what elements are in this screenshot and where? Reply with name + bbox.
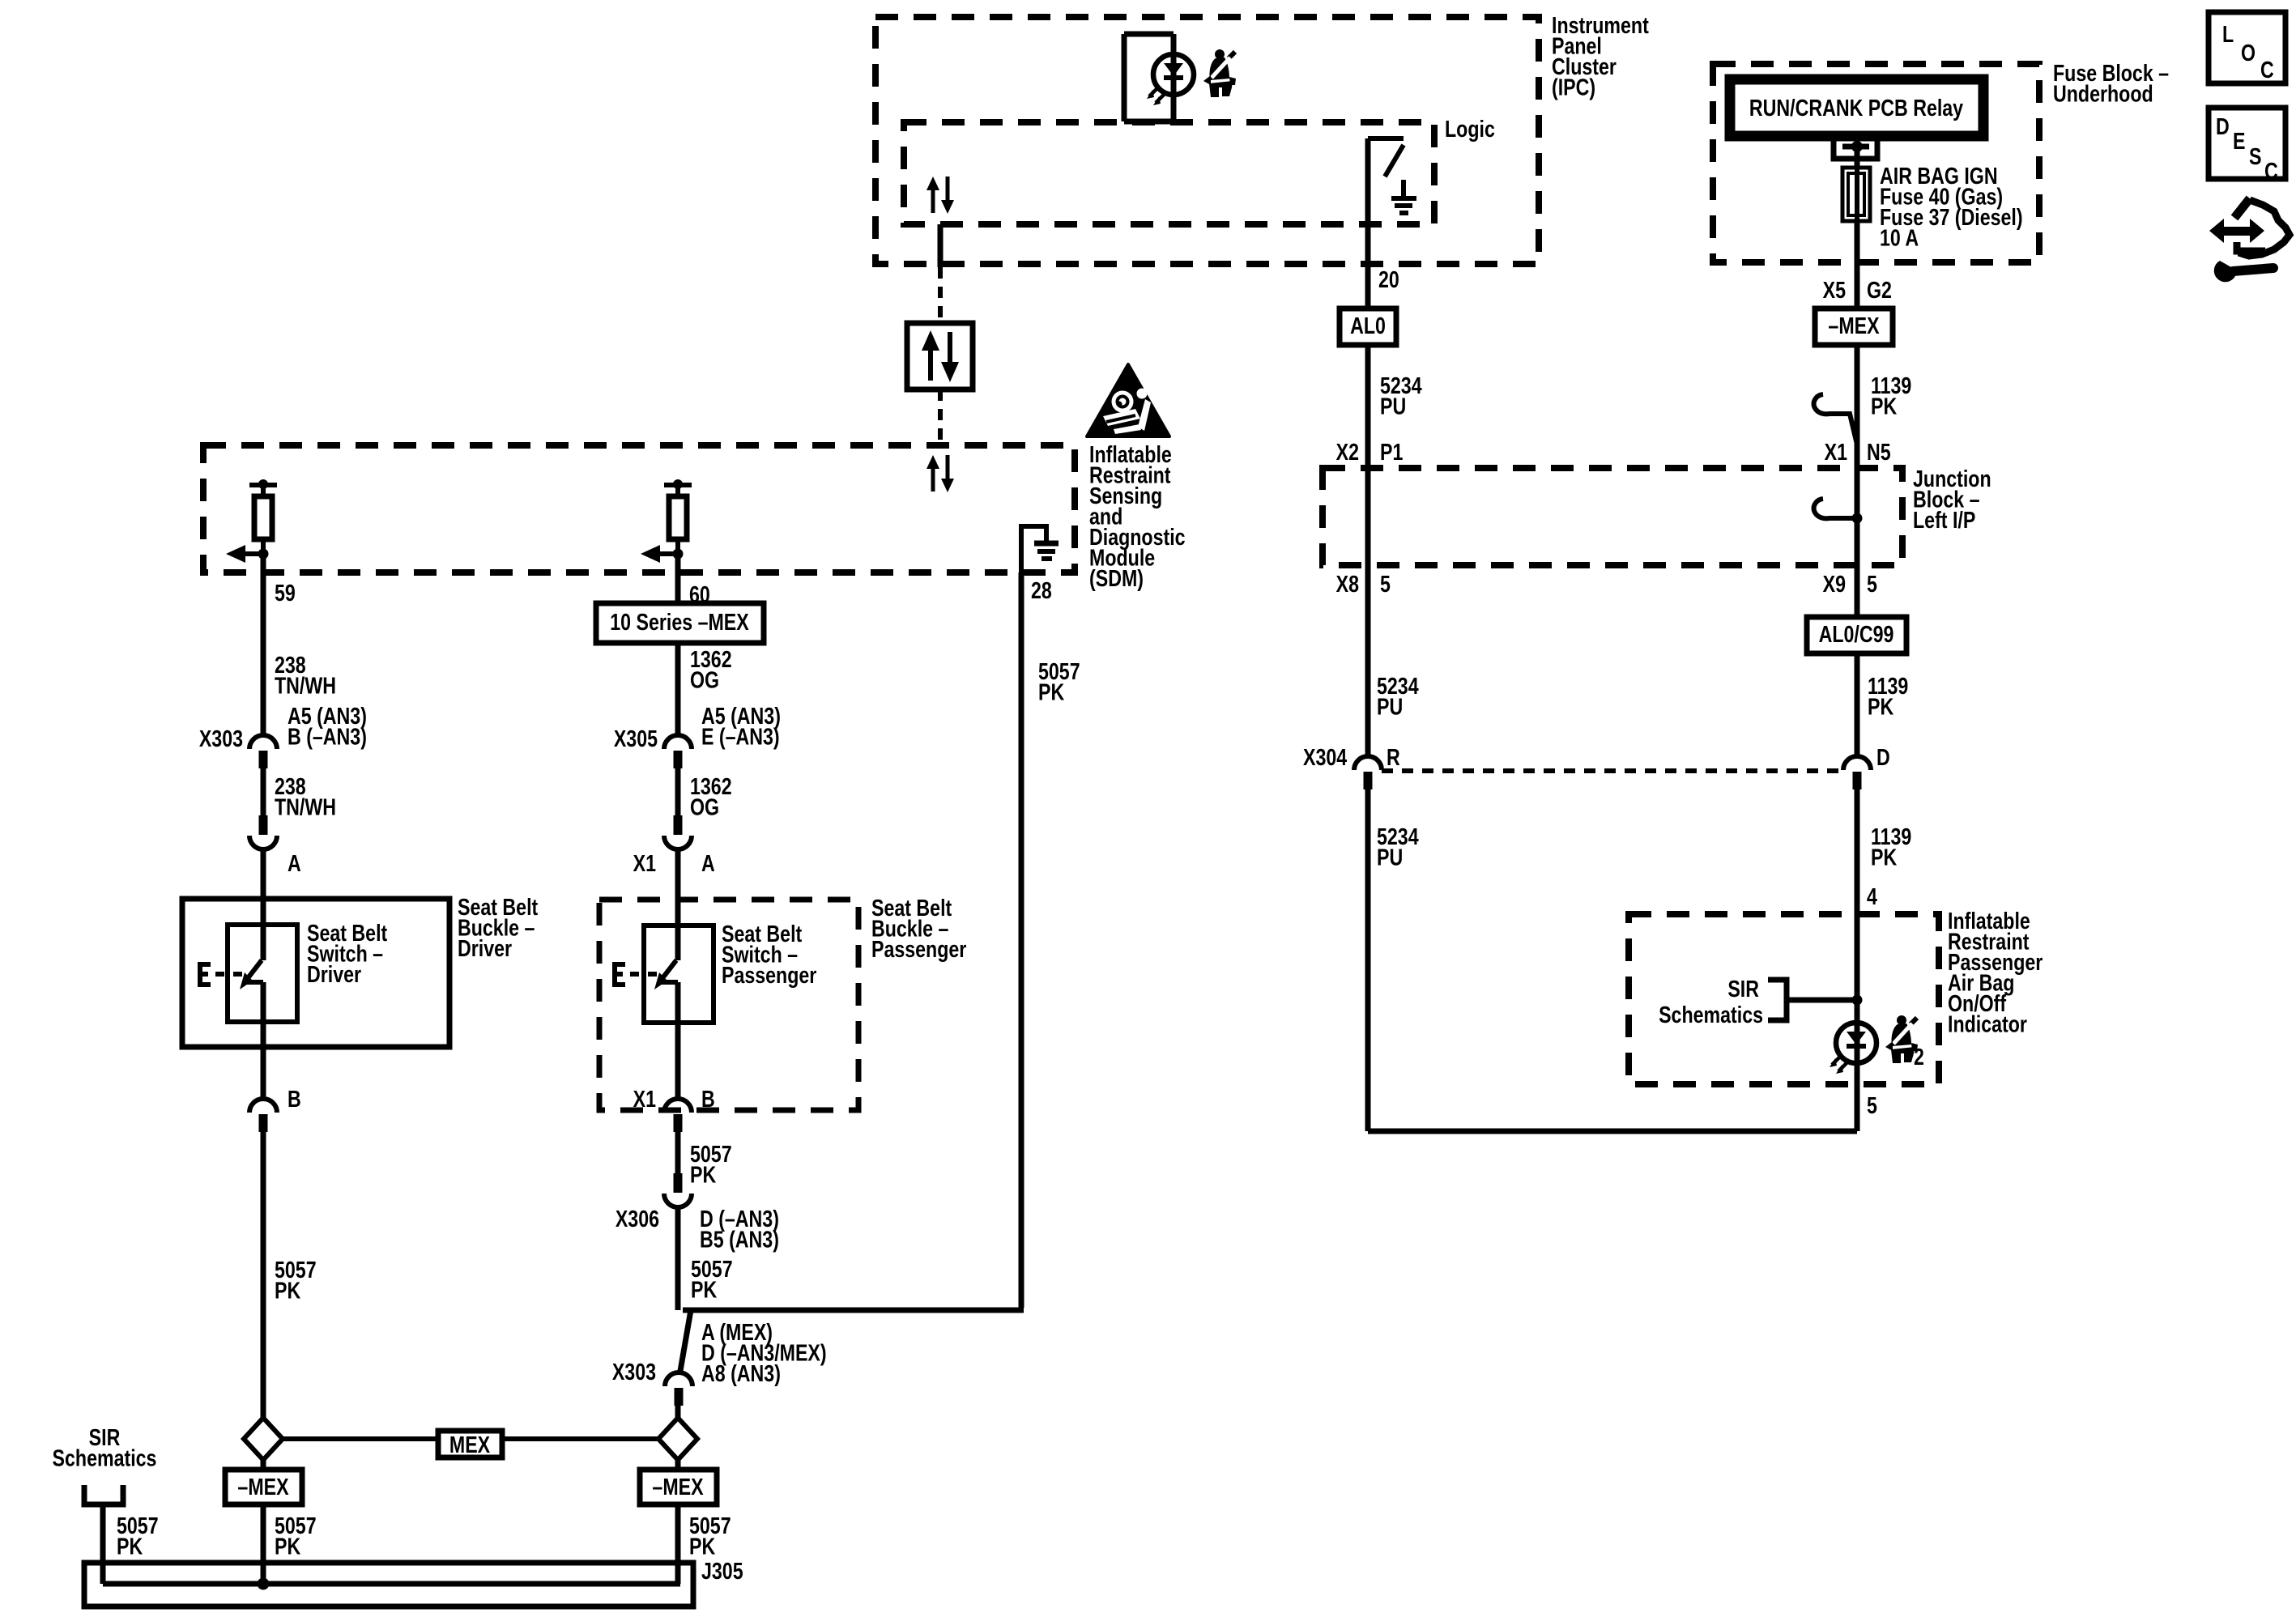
svg-text:X9: X9 <box>1823 570 1846 597</box>
net box -MEX (passenger) <box>640 1470 717 1504</box>
label: SIR Schematics (bottom left) <box>53 1423 157 1471</box>
wire: SDM pin 28 ground branch vertical <box>1019 572 1024 1308</box>
wire: -MEX to J305 bus (passenger) <box>675 1504 681 1584</box>
indicator module dashed outline <box>1629 914 1939 1084</box>
svg-text:PK: PK <box>691 1276 717 1303</box>
wire: ground branch horizontal to passenger column <box>683 1308 1024 1313</box>
desc reference box <box>2209 108 2285 179</box>
label: AIR BAG IGN Fuse 40 (Gas) Fuse 37 (Diesel) 10 A <box>1880 162 2023 251</box>
logic block dashed outline inside IPC <box>904 122 1434 224</box>
splice bus J305 inner line <box>103 1581 680 1587</box>
wire: SDM pin 60 passenger column upper <box>675 554 681 603</box>
switch S2 inner box (passenger) <box>644 926 714 1023</box>
SDM internal ground hook <box>1021 526 1046 572</box>
wire: between X303 halves (driver) <box>261 767 266 817</box>
serial data arrows inside SDM <box>926 455 954 492</box>
wire: passenger diamond to -MEX <box>675 1460 681 1470</box>
svg-text:D: D <box>2216 113 2230 139</box>
svg-text:AL0: AL0 <box>1350 312 1386 338</box>
svg-text:OG: OG <box>690 666 719 693</box>
svg-text:5: 5 <box>1380 570 1391 597</box>
net box MEX <box>438 1431 502 1457</box>
label: circuit 1362 OG (upper) <box>690 645 732 693</box>
label: Seat Belt Buckle - Passenger <box>871 894 966 962</box>
connector X304 half <box>1354 756 1382 789</box>
wire: AL0/C99 down to connector D <box>1855 653 1860 756</box>
svg-text:PU: PU <box>1380 393 1406 419</box>
E terminal glyph (passenger) <box>612 962 657 987</box>
svg-text:D: D <box>1876 743 1890 770</box>
label: circuit 1139 PK (lower) <box>1871 823 1911 870</box>
svg-text:Logic: Logic <box>1445 115 1495 142</box>
svg-text:20: 20 <box>1378 266 1399 292</box>
junction block left I/P dashed outline <box>1323 468 1902 565</box>
up arrow in gateway box <box>928 350 933 381</box>
label: circuit 1139 PK (mid) <box>1868 672 1908 720</box>
label: D E S C diagonal <box>2216 113 2278 184</box>
switch blade with arrow (passenger) <box>654 960 678 989</box>
seat belt wearer icon in IPC <box>1203 49 1236 97</box>
junction block tap hook upper <box>1814 394 1857 445</box>
svg-text:PK: PK <box>1871 393 1897 419</box>
svg-text:PU: PU <box>1377 844 1403 870</box>
svg-text:X2: X2 <box>1336 438 1359 465</box>
wire: driver switch to B pin <box>261 982 266 1099</box>
svg-text:E (–AN3): E (–AN3) <box>701 723 780 750</box>
LED lamp symbol in indicator <box>1830 1023 1876 1074</box>
svg-text:P1: P1 <box>1380 438 1403 465</box>
connector X1 A half (cup) <box>664 815 692 849</box>
svg-text:X8: X8 <box>1336 570 1359 597</box>
connector X1 B half <box>664 1099 692 1132</box>
wire: -MEX down to junction block <box>1855 345 1860 468</box>
svg-text:–MEX: –MEX <box>1828 312 1880 338</box>
net box AL0/C99 <box>1807 617 1906 653</box>
svg-text:SIR: SIR <box>1727 975 1759 1002</box>
wire: between X305 halves <box>675 767 681 817</box>
wire: IPC logic output pin 20 vertical <box>1365 138 1371 309</box>
SIR schematics bracket (indicator) <box>1768 980 1857 1020</box>
label: circuit 5057 PK (passenger upper) <box>690 1140 732 1188</box>
connector at B (driver) <box>249 1099 277 1132</box>
label: Fuse Block - Underhood <box>2053 59 2169 107</box>
SIR schematics bracket (bottom left) <box>84 1485 123 1504</box>
net box -MEX (right) <box>1815 309 1893 345</box>
svg-text:R: R <box>1387 743 1400 770</box>
wire: MEX box to passenger diamond <box>502 1436 658 1441</box>
fuse block underhood dashed outline <box>1713 64 2039 262</box>
switch blade with arrow (driver) <box>240 960 263 989</box>
svg-text:PU: PU <box>1377 693 1403 720</box>
wire: into passenger buckle switch <box>675 849 681 960</box>
svg-text:Left I/P: Left I/P <box>1913 506 1975 533</box>
wire: through junction block (right) <box>1855 468 1860 617</box>
wire: into driver buckle switch <box>261 849 266 960</box>
label: circuit 1362 OG (lower) <box>690 772 732 820</box>
svg-text:TN/WH: TN/WH <box>275 794 336 820</box>
label: Seat Belt Switch - Passenger <box>722 920 816 988</box>
wire: diamond to MEX box <box>283 1436 438 1441</box>
wire: diagonal drop to X303 lower <box>680 1310 691 1371</box>
svg-text:O: O <box>2241 39 2256 66</box>
wrench icon <box>2214 261 2273 282</box>
svg-text:TN/WH: TN/WH <box>275 672 336 699</box>
splice diamond (driver) <box>244 1418 283 1460</box>
svg-text:PK: PK <box>1868 693 1893 720</box>
wire: SIR bracket to bus inner line <box>100 1504 106 1584</box>
wire: X306 down to junction with SDM ground branch <box>675 1207 681 1310</box>
svg-text:Schematics: Schematics <box>53 1445 157 1471</box>
svg-text:X306: X306 <box>616 1205 659 1232</box>
svg-text:N5: N5 <box>1867 438 1891 465</box>
component box: Seat Belt Buckle - Passenger dashed outline <box>599 900 858 1110</box>
loc reference box <box>2209 12 2285 83</box>
wire: dashed serial data link IPC to gateway <box>938 267 943 323</box>
svg-text:X304: X304 <box>1303 743 1348 770</box>
down arrow in gateway box <box>948 332 952 363</box>
svg-text:PK: PK <box>690 1161 716 1188</box>
label: circuit 5057 PK (driver) <box>275 1256 317 1304</box>
label: circuit 238 TN/WH (upper) <box>275 651 336 699</box>
label: L O C diagonal <box>2222 20 2274 83</box>
svg-text:B (–AN3): B (–AN3) <box>288 723 367 750</box>
module box: SDM dashed outline <box>203 445 1075 572</box>
label: circuit 5234 PU (lower) <box>1377 823 1419 870</box>
svg-text:PK: PK <box>117 1533 143 1560</box>
svg-text:S: S <box>2249 143 2261 169</box>
connector X303 lower half (cup) <box>249 815 277 849</box>
wire: SDM pin 59 driver column upper <box>261 554 266 736</box>
svg-text:Underhood: Underhood <box>2053 80 2153 107</box>
svg-text:L: L <box>2222 20 2234 47</box>
svg-text:Indicator: Indicator <box>1948 1011 2027 1037</box>
svg-text:A: A <box>288 849 301 876</box>
wire: X1 B to X306 <box>675 1130 681 1173</box>
wire: dashed serial data link gateway to SDM <box>938 389 943 444</box>
svg-text:A8 (AN3): A8 (AN3) <box>701 1360 781 1386</box>
connector X303 upper half <box>249 735 277 768</box>
label: circuit 5057 PK (passenger lower) <box>691 1255 733 1303</box>
svg-text:59: 59 <box>275 579 296 606</box>
LED lamp symbol in IPC <box>1147 54 1194 105</box>
label: Inflatable Restraint Sensing and Diagnostic Module (SDM) <box>1089 440 1186 591</box>
svg-text:B5 (AN3): B5 (AN3) <box>700 1226 779 1253</box>
svg-text:C: C <box>2260 56 2274 83</box>
serial data arrows inside Logic block <box>926 177 954 214</box>
label: circuit 5234 PU (mid) <box>1377 672 1419 720</box>
gateway box with arrows (serial data) <box>907 323 973 389</box>
label: Seat Belt Switch - Driver <box>307 919 387 987</box>
svg-text:B: B <box>288 1085 301 1112</box>
switch symbol inside Logic block <box>1368 138 1404 177</box>
label: circuit 1139 PK (upper) <box>1871 372 1911 419</box>
svg-text:10 Series –MEX: 10 Series –MEX <box>610 608 749 635</box>
switch S1 inner box (driver) <box>228 925 297 1022</box>
fuse F40/F37: AIR BAG IGN fuse symbol <box>1842 168 1870 221</box>
svg-text:G2: G2 <box>1867 276 1892 303</box>
connector D (X304 mate) half <box>1843 756 1871 789</box>
svg-text:28: 28 <box>1031 577 1052 603</box>
wire: driver diamond to -MEX box <box>261 1460 266 1470</box>
svg-text:X1: X1 <box>633 1085 656 1112</box>
label: circuit 238 TN/WH (lower) <box>275 772 336 820</box>
svg-text:AL0/C99: AL0/C99 <box>1819 620 1894 647</box>
seat belt wearer icon in indicator <box>1885 1015 1918 1063</box>
E terminal glyph (driver) <box>198 962 242 987</box>
svg-text:B: B <box>701 1085 715 1112</box>
svg-text:X303: X303 <box>199 725 243 751</box>
label: Instrument Panel Cluster (IPC) <box>1552 11 1649 100</box>
label: Junction Block - Left I/P <box>1913 465 1991 533</box>
connector X306 (cup) <box>664 1173 692 1207</box>
svg-text:OG: OG <box>690 794 719 820</box>
svg-text:X1: X1 <box>633 849 656 876</box>
label: circuit 5057 PK (SDM ground) <box>1038 657 1080 705</box>
connector X305 upper half <box>664 735 692 768</box>
connector X303 bottom half <box>665 1372 692 1406</box>
wire: serial data stub below Logic box <box>938 224 944 267</box>
ground symbol in SDM <box>1034 543 1059 559</box>
svg-text:MEX: MEX <box>449 1431 491 1457</box>
svg-text:X5: X5 <box>1823 276 1846 303</box>
svg-text:Passenger: Passenger <box>722 961 816 988</box>
module box: Instrument Panel Cluster (IPC) dashed outline <box>875 17 1539 264</box>
label: circuit 5234 PU (upper) <box>1380 372 1422 419</box>
svg-text:X303: X303 <box>612 1358 656 1385</box>
svg-text:PK: PK <box>1038 679 1064 705</box>
wire: X303 bottom to passenger diamond <box>675 1404 681 1419</box>
splice bus J305 outer ring <box>84 1563 693 1606</box>
label: circuit 5057 PK (passenger bottom) <box>689 1512 731 1560</box>
component box: Seat Belt Buckle - Driver solid outline <box>182 899 449 1047</box>
svg-text:E: E <box>2233 127 2245 154</box>
navigation hand icon with double arrow <box>2209 198 2290 256</box>
label: Inflatable Restraint Passenger Air Bag On/Off Indicator <box>1948 907 2043 1037</box>
svg-text:Driver: Driver <box>458 934 512 961</box>
wire: driver B to splice diamond <box>261 1130 266 1419</box>
wire: X304 down to bottom loop <box>1365 789 1371 1131</box>
label: Seat Belt Buckle - Driver <box>458 893 538 961</box>
wire: bottom return loop <box>1368 1129 1857 1134</box>
wire: -MEX to J305 bus (driver) <box>261 1504 266 1584</box>
wire: passenger switch to X1 B <box>675 982 681 1099</box>
svg-text:4: 4 <box>1867 883 1877 909</box>
svg-text:(SDM): (SDM) <box>1089 564 1144 591</box>
label: circuit 5057 PK (driver lower) <box>275 1512 317 1560</box>
svg-text:Schematics: Schematics <box>1659 1001 1763 1028</box>
svg-text:X305: X305 <box>614 725 658 751</box>
net box 10 Series -MEX <box>596 603 764 643</box>
resistor R1 (driver lamp drive) with output arrow <box>226 479 277 563</box>
ground symbol inside Logic block <box>1391 180 1416 213</box>
relay output terminal bracket <box>1834 138 1877 159</box>
indicator LED L1 feed rectangle (IPC seat belt lamp branch) <box>1124 34 1174 121</box>
svg-text:RUN/CRANK PCB Relay: RUN/CRANK PCB Relay <box>1749 94 1964 121</box>
svg-text:PK: PK <box>275 1533 300 1560</box>
svg-text:Driver: Driver <box>307 960 361 987</box>
resistor R2 (passenger lamp drive) with output arrow <box>641 479 692 563</box>
label: SIR Schematics (indicator) <box>1659 975 1763 1028</box>
wire: IPC pin 20 branch AL0 box <box>1340 309 1396 345</box>
svg-text:5: 5 <box>1867 1091 1877 1118</box>
svg-text:Passenger: Passenger <box>871 935 966 962</box>
wire: 10 Series box to X305 <box>675 643 681 736</box>
wire: AL0 down through junction block to X304 <box>1365 345 1371 756</box>
net box -MEX (driver) <box>225 1470 302 1504</box>
splice diamond (passenger) <box>658 1418 697 1460</box>
svg-text:(IPC): (IPC) <box>1552 74 1595 100</box>
junction dot on J305 (driver branch) <box>258 1578 270 1590</box>
svg-text:X1: X1 <box>1825 438 1847 465</box>
svg-text:A: A <box>701 849 715 876</box>
label: circuit 5057 PK (SIR branch) <box>117 1512 159 1560</box>
svg-text:C: C <box>2264 157 2278 184</box>
svg-text:PK: PK <box>275 1277 300 1304</box>
svg-text:–MEX: –MEX <box>237 1473 289 1500</box>
junction block tap hook lower with junction dot <box>1814 499 1857 518</box>
svg-text:10 A: 10 A <box>1880 224 1919 251</box>
svg-text:PK: PK <box>1871 844 1897 870</box>
relay K1: RUN/CRANK PCB Relay heavy box <box>1730 79 1983 136</box>
wire: relay to fuse <box>1855 147 1860 168</box>
svg-text:J305: J305 <box>701 1557 743 1584</box>
svg-text:2: 2 <box>1914 1043 1924 1070</box>
wire: D connector down to indicator <box>1855 789 1860 914</box>
svg-text:PK: PK <box>689 1533 715 1560</box>
wire: fuse through X5 G2 to -MEX <box>1855 221 1860 309</box>
warning triangle airbag icon <box>1087 364 1169 436</box>
wire: indicator internal vertical <box>1855 914 1860 1131</box>
svg-text:5: 5 <box>1867 570 1877 597</box>
wire: dashed connector line X304 to D <box>1382 768 1843 773</box>
svg-text:–MEX: –MEX <box>652 1473 704 1500</box>
